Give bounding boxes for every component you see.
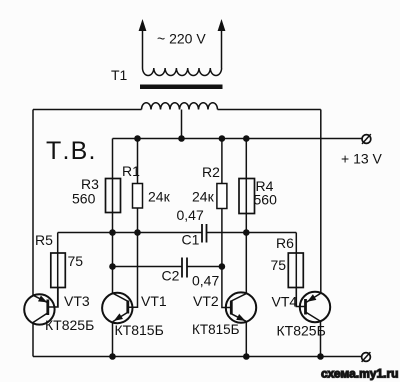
transistor VT1 emitter (arrow outward, NPN)	[113, 312, 128, 356]
svg-text:0,47: 0,47	[177, 207, 204, 223]
svg-text:24к: 24к	[192, 189, 215, 205]
capacitor C1 plates	[202, 224, 207, 243]
svg-text:VT2: VT2	[193, 293, 219, 309]
wire R5 leads through body to VT3 base	[57, 233, 59, 308]
svg-text:КТ825Б: КТ825Б	[45, 317, 94, 333]
wire R3 branch: bus corner down through R3 to VT1 collector	[112, 139, 114, 294]
node C2 wire / R3 branch	[109, 263, 116, 270]
wire R6 leads through body to VT4 base	[295, 233, 297, 307]
wire R1 bottom lead down to VT1 base	[128, 208, 138, 307]
transistor VT2 emitter (arrow outward, NPN)	[231, 314, 246, 356]
svg-text:0,47: 0,47	[192, 273, 219, 289]
svg-text:75: 75	[68, 253, 84, 269]
svg-text:R5: R5	[35, 232, 53, 248]
node C1 wire / R3 branch	[109, 229, 116, 236]
resistor R2 body	[217, 184, 227, 209]
node R1 top on bus	[134, 135, 141, 142]
svg-text:24к: 24к	[148, 189, 171, 205]
svg-text:КТ815Б: КТ815Б	[115, 322, 164, 338]
transistor VT2 base bar	[230, 301, 233, 315]
transformer T1 core	[140, 85, 223, 90]
svg-text:Т.В.: Т.В.	[46, 137, 97, 165]
transformer T1 secondary winding	[142, 103, 218, 110]
terminal bottom right	[362, 352, 371, 362]
svg-text:VT3: VT3	[64, 293, 90, 309]
node C1 wire / R1 branch	[134, 229, 141, 236]
transistor VT3 emitter (arrow to base, PNP)	[33, 295, 47, 302]
wire R2 bottom lead down to VT2 base	[222, 209, 231, 308]
wire +13V bus	[113, 138, 363, 140]
transistor VT1 circle	[102, 293, 132, 323]
transformer T1 primary winding	[143, 68, 222, 76]
wire right rail down to VT4 emitter	[320, 110, 322, 294]
transistor VT4 circle	[300, 292, 330, 322]
transformer T1 primary right lead with arrow	[218, 19, 226, 68]
wire R2 top lead	[221, 139, 223, 184]
svg-text:VT4: VT4	[272, 294, 298, 310]
transistor VT4 base bar	[304, 299, 307, 315]
svg-text:R2: R2	[202, 164, 220, 180]
svg-text:560: 560	[72, 191, 96, 207]
svg-text:VT1: VT1	[141, 293, 167, 309]
svg-text:C2: C2	[162, 268, 180, 284]
transistor VT1 collector	[113, 293, 128, 301]
node VT1 emitter on bottom rail	[109, 353, 116, 360]
node center tap on +13V bus	[178, 135, 185, 142]
resistor R6 body	[288, 253, 303, 288]
transistor VT1 base bar	[126, 301, 129, 314]
resistor R1 body	[133, 184, 143, 209]
node VT4 collector on bottom rail	[317, 353, 324, 360]
wire C1 line: R5 top to C1 left plate	[58, 232, 202, 234]
wire C1 right plate to R6 top corner	[207, 232, 297, 234]
node C1 wire / R4 branch	[243, 229, 250, 236]
svg-text:~ 220 V: ~ 220 V	[157, 31, 206, 47]
transistor VT3 circle	[24, 294, 54, 324]
svg-text:C1: C1	[182, 232, 200, 248]
transistor VT4 emitter (arrow to base, PNP)	[306, 293, 321, 302]
transistor VT4 base lead	[296, 288, 305, 307]
transistor VT2 collector	[231, 294, 246, 301]
svg-text:схема.my1.ru: схема.my1.ru	[321, 367, 398, 381]
wire C2 right plate to R2 branch	[187, 266, 222, 268]
svg-text:560: 560	[254, 192, 278, 208]
transistor VT2 circle	[226, 292, 256, 322]
transistor VT3 base lead	[48, 288, 58, 308]
node VT2 emitter on bottom rail	[243, 353, 250, 360]
wire left rail down to VT3 emitter	[32, 110, 34, 296]
transistor VT4 collector	[306, 312, 321, 357]
resistor R5 body	[51, 253, 66, 288]
transistor VT3 collector	[33, 313, 48, 357]
node R2 top on bus	[219, 135, 226, 142]
transformer T1 primary left lead with arrow	[139, 19, 147, 68]
wire R4 branch: bus down through R4 to VT2 collector	[245, 139, 247, 294]
svg-text:КТ815Б: КТ815Б	[192, 322, 240, 337]
svg-text:Т1: Т1	[111, 67, 128, 83]
svg-text:+ 13 V: + 13 V	[341, 151, 383, 167]
resistor R3 body	[106, 179, 121, 213]
wire secondary center tap	[181, 110, 183, 139]
resistor R4 body	[239, 179, 255, 214]
transistor VT3 base bar	[46, 300, 49, 316]
wire R1 top lead	[137, 139, 139, 184]
node R4 top on bus	[243, 135, 250, 142]
terminal +13V	[362, 134, 371, 144]
svg-text:R1: R1	[122, 163, 140, 179]
svg-text:КТ825Б: КТ825Б	[277, 323, 326, 339]
svg-text:75: 75	[271, 257, 287, 273]
wire C2 line: R3 branch to C2 left plate	[113, 266, 183, 268]
wire secondary right end to right rail	[218, 109, 321, 111]
wire secondary left end to left rail	[33, 109, 142, 111]
capacitor C2 plates	[182, 258, 187, 278]
svg-text:R6: R6	[276, 235, 294, 251]
wire bottom rail	[33, 356, 362, 358]
node C2 wire / R2 branch	[219, 263, 226, 270]
